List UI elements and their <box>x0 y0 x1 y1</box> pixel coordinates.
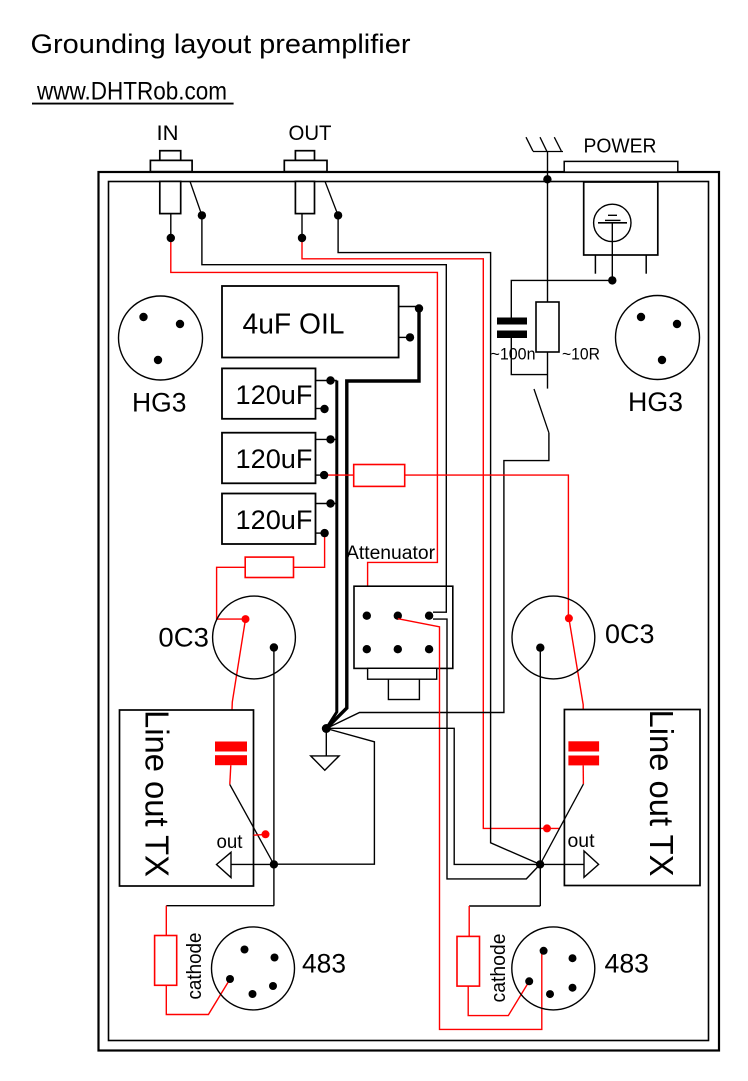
svg-text:HG3: HG3 <box>132 388 187 418</box>
svg-text:out: out <box>568 831 596 852</box>
svg-text:Line out TX: Line out TX <box>643 710 680 877</box>
svg-text:out: out <box>217 832 244 853</box>
svg-text:Line out TX: Line out TX <box>139 710 176 877</box>
svg-text:www.DHTRob.com: www.DHTRob.com <box>36 78 227 106</box>
svg-text:483: 483 <box>605 949 650 979</box>
svg-text:120uF: 120uF <box>236 380 313 410</box>
svg-text:cathode: cathode <box>183 933 206 1000</box>
svg-text:Attenuator: Attenuator <box>346 543 436 564</box>
svg-text:0C3: 0C3 <box>158 623 209 653</box>
svg-text:~10R: ~10R <box>562 346 600 364</box>
svg-text:0C3: 0C3 <box>605 619 655 649</box>
svg-text:120uF: 120uF <box>236 444 313 474</box>
svg-text:120uF: 120uF <box>236 505 313 535</box>
svg-text:IN: IN <box>157 122 179 145</box>
svg-text:OUT: OUT <box>289 122 332 145</box>
svg-text:HG3: HG3 <box>628 387 683 417</box>
svg-text:~100n: ~100n <box>491 346 536 364</box>
svg-text:4uF OIL: 4uF OIL <box>243 309 345 341</box>
svg-text:cathode: cathode <box>487 934 510 1003</box>
svg-text:POWER: POWER <box>584 136 657 158</box>
svg-text:483: 483 <box>302 949 346 979</box>
svg-text:Grounding layout preamplifier: Grounding layout preamplifier <box>31 29 411 59</box>
